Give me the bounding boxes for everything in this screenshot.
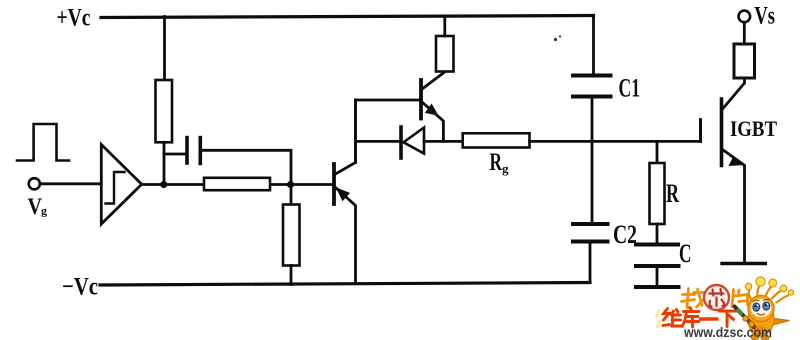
wire gate line down to C2 [591,141,594,224]
svg-text:C: C [679,239,692,268]
input terminal Vg [29,178,40,189]
resistor Rg [463,133,530,147]
stray speckles [554,38,557,41]
wire node B down to resistor R3 [290,185,293,205]
op-amp buffer U1 (schmitt trigger) [101,145,141,225]
wire R1 bottom to node A [163,142,166,184]
capacitor C3 (speed-up cap) [185,138,189,163]
IGBT collector lead [723,78,745,109]
watermark magnifier ring [704,285,729,310]
-Vc supply rail wire [100,283,590,286]
Q1 emitter lead [422,102,443,141]
mascot pointer arm [771,318,790,326]
wire diode D1 to resistor Rg [424,140,463,143]
diode D1 triangle [404,128,425,154]
IGBT channel bar [720,99,724,166]
input pulse symbol [17,124,69,161]
capacitor C1 [573,74,611,78]
watermark highlight streaks [657,310,661,327]
mascot crown stems [749,286,788,303]
watermark char pian (orange) [732,290,748,307]
watermark char ku (red) [682,308,699,328]
hysteresis glyph inside U1 [106,172,125,204]
svg-text:www.dzsc.com: www.dzsc.com [683,325,772,340]
wire +Vc rail corner down to C1 [592,16,595,76]
mascot brows and smile [753,299,769,301]
wire R5 to Vs terminal [743,23,746,44]
mascot hands [743,316,748,321]
wire R2 to transistor Q2 base through node B [271,183,333,186]
IGBT emitter arrow [729,157,745,166]
IGBT emitter lead [723,150,745,264]
transistor Q1 (NPN) base bar [419,80,423,119]
wire C3 right plate over to node B [200,150,291,184]
capacitor C2 [573,222,608,226]
resistor R4 (Q1 collector load) [436,36,454,72]
IGBT emitter terminal bar [722,262,765,265]
wire Q1 base to vertical [356,99,420,102]
wire Rg to IGBT gate [530,140,701,143]
svg-text:−Vc: −Vc [62,274,98,301]
svg-text:Vs: Vs [754,3,775,30]
resistor R1 [156,80,173,142]
IGBT gate bar [699,120,702,142]
watermark char xia (red) [719,311,737,327]
svg-text:g: g [502,161,509,176]
capacitor C [636,243,678,247]
watermark char xin (red, in ring) [710,289,725,307]
mascot feet [751,334,759,339]
+Vc supply rail wire [101,16,594,18]
watermark mascot [735,277,794,340]
svg-text:g: g [41,204,47,218]
wire C1 to gate line [591,97,594,142]
diode D1 cathode bar [399,127,403,158]
ground bar under C [636,285,679,289]
wire C bottom stub [656,266,659,287]
resistor R3 [283,205,300,266]
watermark char yi (red) [701,317,718,320]
wire gate line down to resistor R [656,141,659,163]
mascot eyes [753,303,760,311]
wire U1 output to node A and on to resistor R2 [142,183,204,186]
Q2 emitter lead [336,188,356,284]
svg-text:IGBT: IGBT [730,116,777,141]
svg-text:C1: C1 [619,74,641,103]
resistor R2 [204,178,270,190]
Q1 collector lead [422,72,445,89]
mascot body [748,303,774,336]
mascot head [748,296,774,322]
watermark char wei (red) [663,309,681,327]
watermark char zhao (orange) [682,289,705,308]
wire node A branch to capacitor C3 [164,153,187,156]
svg-text:C2: C2 [613,220,637,249]
wire R4 to +Vc rail [443,17,446,37]
Q2 collector lead [336,100,356,174]
Q1 emitter arrow (points out, NPN) [425,104,439,116]
wire R3 bottom to -Vc rail [290,266,293,285]
Q2 emitter arrow (points into base, PNP) [336,187,350,201]
svg-text:R: R [666,179,679,208]
svg-text:+Vc: +Vc [57,5,91,32]
wire diode line left segment [356,140,401,143]
resistor R [650,163,665,224]
mascot face [751,299,772,317]
node B junction dot [287,181,294,188]
mascot crown bulbs [745,283,751,289]
watermark group [657,277,794,340]
mascot telescope [735,307,754,326]
transistor Q2 (PNP) base bar [332,164,336,204]
wire +Vc rail down to resistor R1 [163,17,166,81]
wire R bottom to capacitor C [656,224,659,245]
wire C2 bottom to -Vc rail corner [589,242,592,283]
wire Q1 base down to diode line [354,100,357,163]
terminal Vs [739,11,751,23]
svg-text:R: R [490,149,503,176]
resistor R5 (series with Vs) [734,44,755,78]
node A junction dot [160,181,167,188]
wire input terminal to buffer U1 [41,182,102,185]
